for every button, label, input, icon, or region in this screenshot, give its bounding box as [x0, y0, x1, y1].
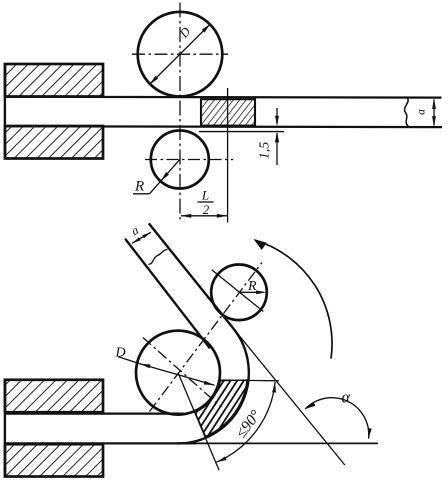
mandrel roller D (circle) — [136, 331, 220, 415]
bent section inner edge — [125, 239, 210, 349]
pressing roller R (circle) — [211, 265, 267, 321]
roller R perpendicular centerline — [212, 270, 264, 312]
specimen top surface — [4, 96, 442, 99]
svg-text:a: a — [416, 109, 428, 115]
svg-text:α: α — [342, 388, 351, 407]
horizontal reference line at mandrel level — [220, 379, 279, 382]
svg-text:L: L — [201, 188, 209, 203]
radius dimension R (bent state) — [239, 291, 263, 293]
angle dimension arc (less than 90 deg) — [216, 382, 275, 462]
weld seam section (hatched) — [201, 99, 255, 125]
svg-text:1,5: 1,5 — [258, 142, 273, 160]
clamp upper jaw (hatched block) — [5, 64, 103, 97]
mandrel-roller common centerline — [150, 263, 263, 412]
bent specimen horizontal top surface — [4, 412, 184, 414]
roller R horizontal centerline — [145, 159, 233, 161]
weld root protrusion line — [199, 131, 284, 133]
dimension 1,5 (weld protrusion) — [276, 108, 278, 124]
horizontal reference line (angle alpha base) — [196, 442, 378, 444]
clamp lower jaw (hatched block) — [5, 126, 103, 159]
roller D horizontal centerline — [132, 53, 228, 55]
radial line limiting bend angle — [178, 373, 219, 471]
angle dimension arc alpha — [305, 398, 369, 439]
bent specimen left end edge — [4, 379, 6, 478]
radius leader R — [133, 193, 150, 195]
thickness dimension a (arrows) — [433, 100, 435, 126]
bent section outer edge — [149, 223, 233, 328]
lower clamp lower jaw (hatched block) — [5, 444, 103, 476]
bend outer arc — [178, 328, 249, 443]
svg-text:D: D — [115, 346, 126, 361]
thickness dimension a (bent end) — [132, 232, 151, 243]
svg-text:R: R — [247, 279, 257, 294]
lower roller R (circle) — [151, 131, 209, 189]
upper roller D (circle) — [138, 12, 223, 97]
svg-text:2: 2 — [203, 202, 210, 217]
L/2 extension line — [227, 88, 229, 223]
diameter dimension line D (bent state) — [140, 364, 215, 385]
bent specimen horizontal bottom surface — [4, 442, 196, 444]
lower clamp upper jaw (hatched block) — [5, 380, 103, 412]
diameter dimension line D — [150, 24, 211, 85]
mandrel perpendicular centerline — [143, 338, 222, 408]
specimen left end edge — [4, 63, 6, 160]
bent axis extension line (thin) — [233, 328, 345, 465]
specimen bottom surface — [4, 125, 442, 128]
rollers vertical centerline — [179, 3, 181, 223]
break wavy line (bent section) — [148, 249, 167, 264]
bend direction arrow — [255, 240, 332, 358]
svg-text:R: R — [134, 179, 144, 195]
break wavy line on specimen — [405, 98, 409, 127]
dimension line L/2 — [181, 215, 227, 217]
